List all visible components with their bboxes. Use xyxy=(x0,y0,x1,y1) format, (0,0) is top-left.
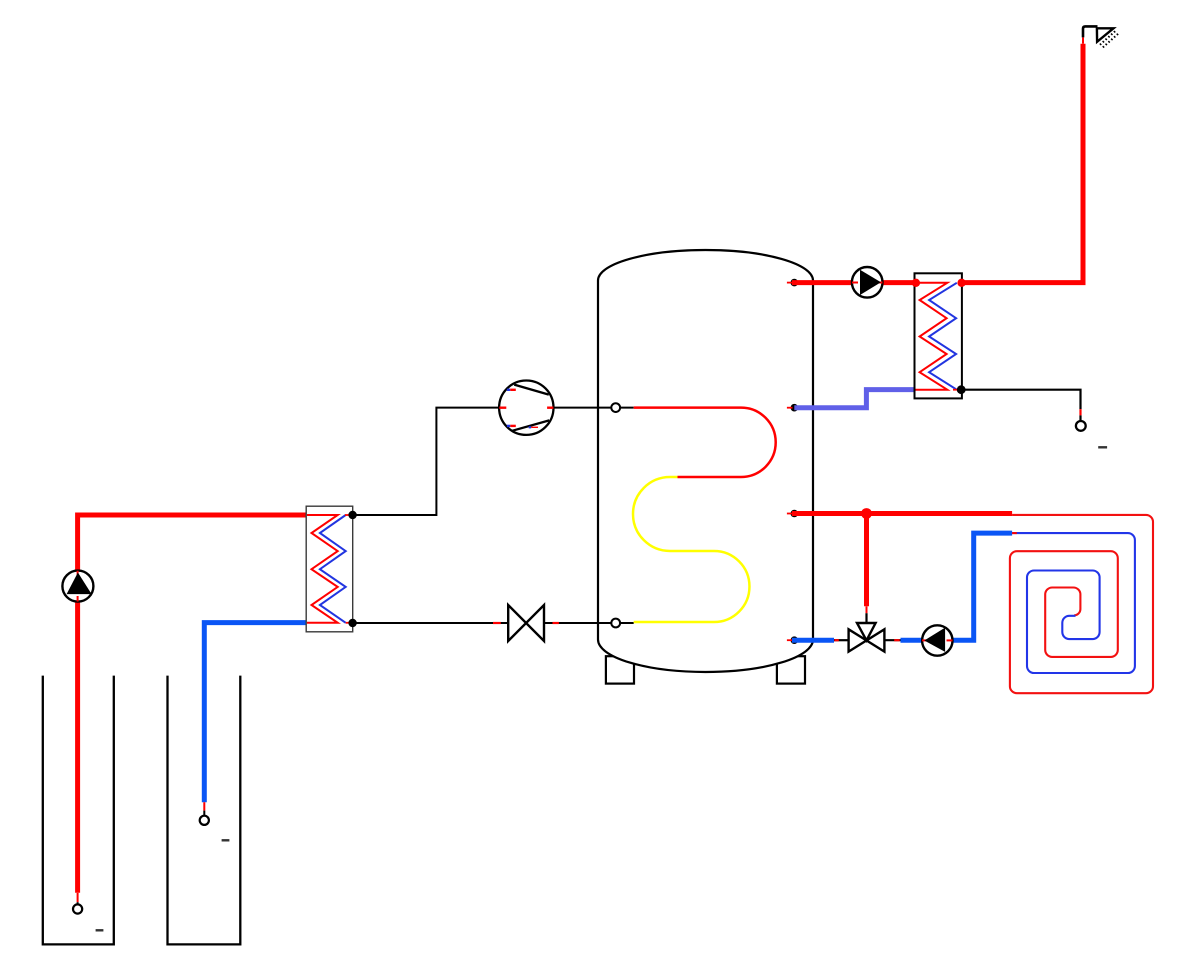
heat exchanger HX1 red zigzag xyxy=(307,515,338,623)
pipe red tank lower-right to floor circuit xyxy=(792,511,1012,516)
shower spray lines xyxy=(1100,31,1120,49)
foot right of storage tank xyxy=(777,656,805,683)
red tick HX1 top-right xyxy=(345,514,351,516)
well 2 probe circle xyxy=(200,816,209,825)
black wire 3-way valve left xyxy=(834,639,849,641)
thin red stub above 3-way valve xyxy=(866,606,868,613)
junction dot HX1 bottom-right xyxy=(348,619,356,627)
pump P3 triangle xyxy=(924,628,945,652)
red tick compressor left xyxy=(499,407,506,409)
pipe blue return from HX1 down into well 2 xyxy=(204,623,306,803)
red stub at tank mid-right port xyxy=(787,407,793,409)
blue red tick compressor lower-left xyxy=(507,425,510,427)
shower head triangle xyxy=(1097,28,1114,42)
pipe red tank top to pump P2 xyxy=(792,280,852,285)
cold water end circle xyxy=(1076,421,1086,431)
red junction dot on floor supply xyxy=(861,508,872,519)
wire from HX1 top junction up and right to tank upper-left port xyxy=(353,408,500,515)
red tick left of 3-way valve xyxy=(834,639,838,641)
pipe blue tank bottom to 3-way valve xyxy=(792,638,834,643)
well 1 probe circle xyxy=(73,904,82,913)
tank internal coil red upper part xyxy=(634,408,776,477)
red stub on cold water drop xyxy=(1079,409,1081,415)
black wire 3-way valve right xyxy=(884,639,900,641)
red stub at blue spiral entry xyxy=(1012,532,1017,534)
blue red tick compressor lower-middle xyxy=(529,426,532,428)
junction dot HX1 top-right xyxy=(348,511,356,519)
tank internal coil yellow lower part xyxy=(633,477,749,622)
pump P2 circle xyxy=(852,267,883,298)
shower riser thin red xyxy=(1082,37,1084,43)
compressor symbol circle xyxy=(499,381,553,435)
pipe violet tank mid to HX2 bottom xyxy=(794,390,914,408)
red stub inside pump P3 right xyxy=(947,639,953,641)
red stub inside pump P2 left xyxy=(852,282,858,284)
red stub below solar pipe end xyxy=(77,893,79,902)
foot left of storage tank xyxy=(606,656,634,683)
pipe red branch down to 3-way valve xyxy=(864,514,869,607)
red tick compressor right xyxy=(547,407,553,409)
red tick left of valve V1 xyxy=(493,622,501,624)
wire segment compressor to tank upper-left port xyxy=(553,407,633,409)
black stub above well probe circle xyxy=(77,902,79,904)
pump P2 triangle xyxy=(860,270,881,295)
pipe blue pump P3 up to floor circuit xyxy=(953,533,1013,640)
heat exchanger HX2 box xyxy=(915,273,962,398)
tank lower-right port dot xyxy=(791,510,799,518)
tank upper-left port circle xyxy=(611,403,620,412)
heat exchanger HX1 blue zigzag xyxy=(320,515,346,623)
heat exchanger HX2 blue zigzag xyxy=(929,283,957,390)
red tick right of valve V1 xyxy=(553,622,559,624)
red stub inside pump P3 left xyxy=(922,639,928,641)
red stub inside pump P1 top xyxy=(77,571,79,577)
pump P1 circle xyxy=(62,571,93,602)
red junction dot HX2 top-right xyxy=(957,279,965,287)
3-way valve bowtie xyxy=(849,629,885,651)
red stub at tank bottom-right port xyxy=(787,639,793,641)
valve V1 bowtie xyxy=(508,605,544,641)
red stub below blue pipe end xyxy=(203,802,205,810)
red tick HX2 bottom-right xyxy=(953,389,958,391)
red tick right of 3-way valve xyxy=(894,639,900,641)
shower pipe black xyxy=(1083,26,1098,37)
compressor lower chord xyxy=(512,420,549,430)
tank lower-left port circle xyxy=(611,619,620,628)
junction dot HX2 bottom-right xyxy=(957,385,966,394)
3-way valve top triangle xyxy=(857,623,876,640)
pipe red solar supply vertical and horizontal to HX1 xyxy=(78,515,307,893)
pipe red HX2 to shower riser xyxy=(962,44,1083,283)
heat exchanger HX1 box xyxy=(306,506,353,632)
wire from HX1 bottom junction through valve to tank lower-left port xyxy=(353,622,634,624)
compressor upper chord xyxy=(514,385,549,395)
red stub inside pump P2 right xyxy=(875,282,883,284)
red junction dot HX2 top-left xyxy=(912,279,920,287)
wire HX2 bottom to cold water end xyxy=(961,390,1080,409)
red stub inside pump P1 bottom xyxy=(77,596,79,602)
pump P1 triangle xyxy=(67,573,92,595)
tank top-right port dot xyxy=(791,279,799,287)
tank mid-right port dot xyxy=(791,404,799,412)
storage tank body xyxy=(598,250,813,672)
blue red tick compressor upper-left xyxy=(507,389,510,391)
pipe red pump P2 to HX2 xyxy=(883,280,915,285)
red stub at tank lower-right port xyxy=(787,513,793,515)
floor heating spiral blue xyxy=(1012,533,1135,673)
dash in well 1 xyxy=(96,929,104,931)
dash near cold water circle xyxy=(1098,446,1107,448)
black stub above well 2 probe circle xyxy=(203,811,205,816)
well 2 outline xyxy=(168,676,241,945)
black stub above cold water circle xyxy=(1079,415,1081,421)
floor heating spiral red xyxy=(1010,515,1153,693)
tank bottom-right port dot xyxy=(791,636,799,644)
well 1 outline xyxy=(43,676,114,945)
dash in well 2 xyxy=(222,839,230,841)
black wire into 3-way valve top xyxy=(865,613,867,623)
heat exchanger HX2 red zigzag xyxy=(916,283,948,390)
pump P3 circle xyxy=(922,625,952,655)
red stub at tank top-right port xyxy=(787,282,793,284)
red tick HX1 bottom-right xyxy=(346,622,351,624)
pipe blue 3-way valve to pump P3 xyxy=(901,638,923,643)
